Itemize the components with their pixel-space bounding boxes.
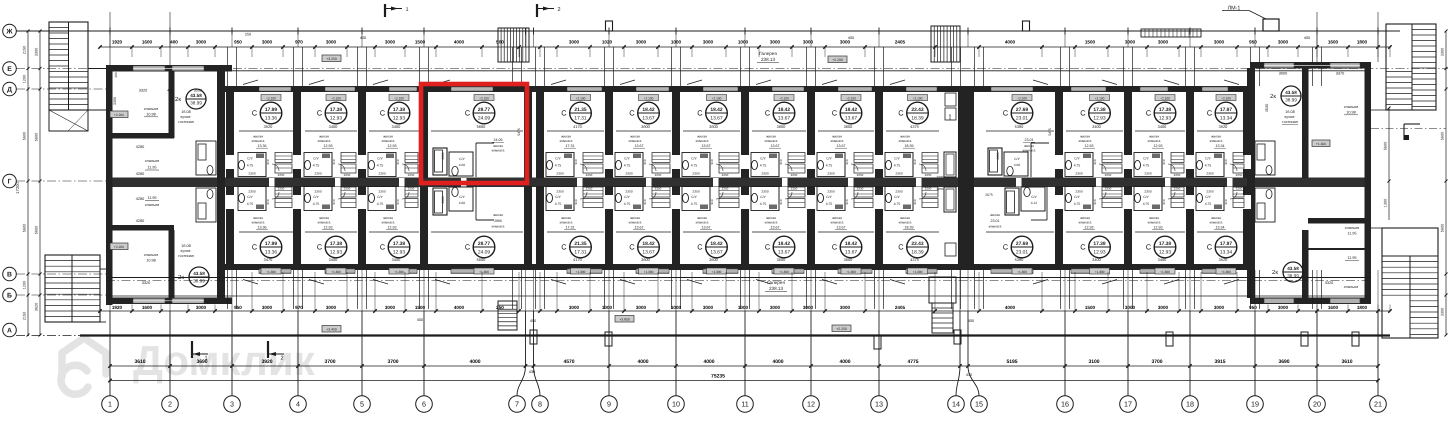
svg-text:400: 400: [417, 318, 423, 322]
svg-text:С/У: С/У: [1074, 157, 1080, 161]
svg-text:комната: комната: [989, 225, 1002, 229]
axis circle 3: [224, 396, 241, 413]
svg-text:5: 5: [360, 400, 364, 409]
svg-text:13.34: 13.34: [1216, 144, 1225, 148]
svg-text:комната: комната: [492, 225, 505, 229]
svg-text:3520: 3520: [264, 124, 273, 129]
svg-text:2250: 2250: [925, 187, 932, 191]
svg-text:спальня: спальня: [1344, 105, 1358, 109]
svg-text:4000: 4000: [839, 359, 850, 365]
svg-text:9: 9: [607, 400, 611, 409]
section mark 2 bottom: [267, 341, 269, 358]
svg-text:жилая: жилая: [990, 213, 1000, 217]
svg-text:10.98: 10.98: [146, 113, 156, 117]
svg-text:жилая: жилая: [561, 216, 571, 220]
svg-text:910: 910: [574, 199, 578, 204]
svg-text:кухня-: кухня-: [181, 249, 193, 253]
svg-text:910: 910: [574, 159, 578, 164]
svg-text:2к: 2к: [1270, 93, 1276, 100]
svg-text:13.67: 13.67: [710, 250, 723, 256]
svg-text:2: 2: [280, 356, 283, 362]
svg-text:16.08: 16.08: [1285, 110, 1295, 114]
svg-text:17.31: 17.31: [566, 144, 575, 148]
unit bottom 18.42 at x811: [838, 269, 872, 274]
svg-text:17.31: 17.31: [574, 116, 587, 122]
svg-text:+2.100: +2.100: [913, 96, 923, 100]
svg-text:2250: 2250: [722, 187, 729, 191]
svg-text:17.97: 17.97: [1220, 241, 1233, 247]
svg-text:С/У: С/У: [1014, 157, 1020, 161]
svg-text:Ж: Ж: [5, 28, 13, 35]
svg-text:2000: 2000: [948, 113, 952, 120]
svg-text:С/У: С/У: [1205, 157, 1211, 161]
svg-text:12.93: 12.93: [324, 226, 333, 230]
axis circle 12: [803, 396, 820, 413]
svg-text:1800: 1800: [1357, 305, 1368, 310]
unit top 22.43 at x879: [906, 87, 937, 92]
unit top 17.99 at x232: [259, 87, 291, 92]
elevation label left bottom: [110, 243, 128, 250]
svg-text:+2.100: +2.100: [479, 96, 489, 100]
svg-text:13.67: 13.67: [710, 116, 723, 122]
svg-text:С/У: С/У: [691, 157, 697, 161]
svg-text:2: 2: [168, 400, 172, 409]
svg-text:22.43: 22.43: [911, 107, 924, 113]
svg-text:2250: 2250: [655, 173, 662, 177]
riser box at axis 9: [606, 21, 613, 31]
axis circle 7: [509, 396, 526, 413]
svg-text:2300: 2300: [556, 190, 564, 194]
svg-text:С: С: [252, 243, 258, 252]
svg-text:3600: 3600: [641, 124, 650, 129]
svg-text:27.69: 27.69: [1016, 241, 1029, 247]
svg-text:3300: 3300: [1441, 308, 1445, 316]
svg-text:3700: 3700: [1151, 359, 1162, 365]
svg-text:С: С: [765, 109, 771, 118]
svg-text:+2.200: +2.200: [114, 245, 124, 249]
svg-text:3000: 3000: [803, 305, 814, 310]
svg-text:+2.100: +2.100: [1095, 96, 1105, 100]
svg-text:Г: Г: [8, 178, 12, 185]
svg-text:комната: комната: [899, 221, 912, 225]
svg-text:18: 18: [1186, 400, 1194, 409]
right section top wall: [1250, 62, 1371, 69]
svg-text:4.75: 4.75: [247, 164, 254, 168]
svg-text:910: 910: [332, 159, 336, 164]
unit bottom 18.42 at x676: [703, 269, 738, 274]
svg-text:4.75: 4.75: [691, 202, 698, 206]
svg-text:10.98: 10.98: [146, 259, 156, 263]
svg-text:2250: 2250: [408, 173, 415, 177]
svg-text:19: 19: [1251, 400, 1259, 409]
svg-text:910: 910: [1162, 199, 1166, 204]
axis circle 2: [162, 396, 179, 413]
axis circle 14: [948, 396, 965, 413]
svg-text:3000: 3000: [1125, 40, 1136, 45]
left section outer wall: [106, 65, 113, 305]
svg-text:+2.200: +2.200: [832, 58, 843, 62]
svg-text:С: С: [252, 109, 258, 118]
axis circle 15: [971, 396, 988, 413]
svg-text:3000: 3000: [385, 40, 396, 45]
unit bottom 17.38 at x362: [389, 269, 417, 274]
svg-text:2300: 2300: [378, 172, 386, 176]
svg-text:комната: комната: [696, 221, 709, 225]
svg-text:6: 6: [422, 400, 426, 409]
axis circle 18: [1182, 396, 1199, 413]
left 2K interior horizontal walls: [112, 133, 174, 139]
svg-text:910: 910: [643, 199, 647, 204]
svg-text:910: 910: [779, 199, 783, 204]
svg-text:3000: 3000: [636, 40, 647, 45]
svg-text:С/У: С/У: [459, 157, 465, 161]
svg-text:С: С: [317, 109, 323, 118]
svg-text:гостиная: гостиная: [178, 120, 193, 124]
svg-text:жилая: жилая: [1211, 216, 1221, 220]
svg-text:21.35: 21.35: [574, 241, 587, 247]
svg-text:комната: комната: [831, 139, 844, 143]
units top wall: [225, 86, 1250, 92]
svg-text:13.67: 13.67: [702, 226, 711, 230]
svg-text:С: С: [317, 243, 323, 252]
svg-text:Домклик: Домклик: [133, 337, 316, 384]
svg-text:2300: 2300: [625, 190, 633, 194]
svg-text:950: 950: [1249, 305, 1257, 310]
svg-text:жилая: жилая: [319, 135, 329, 139]
svg-text:5600: 5600: [477, 124, 486, 129]
axis circle 4: [290, 396, 307, 413]
svg-text:1500: 1500: [1085, 305, 1096, 310]
svg-text:38.99: 38.99: [193, 279, 205, 284]
bottom dimension line units: [100, 310, 1390, 312]
svg-text:5600: 5600: [23, 132, 27, 140]
svg-text:2250: 2250: [1105, 187, 1112, 191]
svg-text:910: 910: [396, 159, 400, 164]
svg-text:1: 1: [405, 7, 408, 13]
svg-text:2300: 2300: [827, 190, 835, 194]
svg-text:910: 910: [845, 159, 849, 164]
units bottom wall: [225, 264, 1250, 270]
svg-text:4000: 4000: [703, 359, 714, 365]
svg-text:3690: 3690: [196, 359, 207, 365]
svg-text:4.75: 4.75: [624, 164, 631, 168]
watermark house icon: [61, 338, 106, 394]
svg-text:4: 4: [296, 400, 300, 409]
elevation label right top: [1312, 140, 1330, 147]
svg-text:4.75: 4.75: [377, 202, 384, 206]
axis circle 5: [354, 396, 371, 413]
unit 22.43 bath strip fixtures: [945, 93, 956, 106]
thick wall axes 14-15: [958, 88, 974, 266]
party walls between units: [226, 88, 234, 178]
svg-text:комната: комната: [831, 221, 844, 225]
svg-text:+1.300: +1.300: [266, 270, 276, 274]
svg-text:5600: 5600: [1384, 142, 1388, 150]
svg-text:2250: 2250: [278, 187, 285, 191]
svg-text:3600: 3600: [777, 257, 786, 262]
party wall door niches: [226, 155, 234, 169]
gallery bottom edge lines: [106, 277, 1371, 279]
svg-text:950: 950: [234, 305, 242, 310]
svg-text:8: 8: [538, 400, 542, 409]
svg-text:910: 910: [710, 199, 714, 204]
left 2K apartment label top: [186, 89, 206, 109]
svg-text:С: С: [1003, 109, 1009, 118]
svg-text:1920: 1920: [112, 40, 123, 45]
svg-text:С/У: С/У: [555, 195, 561, 199]
svg-text:18.39: 18.39: [905, 144, 914, 148]
elevation label +2.250 bottom right: [832, 325, 851, 332]
svg-text:4.75: 4.75: [1205, 202, 1212, 206]
svg-text:4.75: 4.75: [826, 202, 833, 206]
svg-text:С/У: С/У: [826, 157, 832, 161]
svg-text:4.75: 4.75: [894, 164, 901, 168]
svg-text:+1.300: +1.300: [394, 270, 404, 274]
svg-text:3100: 3100: [1088, 359, 1099, 365]
svg-text:С: С: [1080, 109, 1086, 118]
svg-text:комната: комната: [1210, 139, 1223, 143]
svg-text:3600: 3600: [709, 124, 718, 129]
unit bottom 17.38 at x298: [325, 269, 355, 274]
svg-text:3000: 3000: [703, 305, 714, 310]
axis circle 1: [102, 396, 119, 413]
svg-text:3000: 3000: [1278, 40, 1289, 45]
svg-text:13.67: 13.67: [771, 226, 780, 230]
axis circle 6: [416, 396, 433, 413]
svg-text:910: 910: [1093, 199, 1097, 204]
svg-text:2250: 2250: [925, 173, 932, 177]
svg-text:23.01: 23.01: [1016, 116, 1029, 122]
elevation label +3.250 top gallery: [322, 55, 341, 62]
right 2K interior horizontal walls: [1308, 218, 1365, 224]
svg-text:18.42: 18.42: [710, 241, 723, 247]
svg-text:А: А: [7, 327, 12, 334]
svg-text:12.93: 12.93: [1085, 144, 1094, 148]
right 2K interior vertical wall: [1302, 68, 1309, 178]
svg-text:С/У: С/У: [247, 195, 253, 199]
svg-text:910: 910: [779, 159, 783, 164]
svg-text:+2.100: +2.100: [712, 96, 722, 100]
svg-text:4530: 4530: [1265, 104, 1269, 112]
svg-text:17.38: 17.38: [1093, 241, 1106, 247]
svg-text:С/У: С/У: [1074, 195, 1080, 199]
svg-text:С: С: [832, 243, 838, 252]
svg-text:4.75: 4.75: [894, 202, 901, 206]
riser box at axis 16: [1023, 21, 1030, 31]
svg-text:4.75: 4.75: [691, 164, 698, 168]
svg-text:жилая: жилая: [1080, 135, 1090, 139]
svg-text:С: С: [465, 243, 471, 252]
svg-text:жилая: жилая: [319, 216, 329, 220]
svg-text:+2.100: +2.100: [331, 96, 341, 100]
section mark 2 top: [536, 4, 538, 17]
svg-text:500: 500: [496, 40, 504, 45]
svg-text:спальня: спальня: [145, 159, 159, 163]
svg-text:3320: 3320: [142, 281, 150, 285]
svg-text:С: С: [832, 109, 838, 118]
svg-text:С: С: [1146, 109, 1152, 118]
svg-text:3000: 3000: [1214, 305, 1225, 310]
svg-text:2250: 2250: [344, 173, 351, 177]
unit top 17.97 at x1190: [1202, 87, 1228, 92]
svg-text:238.13: 238.13: [761, 57, 775, 62]
svg-text:3300: 3300: [35, 48, 39, 56]
svg-text:3000: 3000: [1125, 305, 1136, 310]
svg-text:2405: 2405: [895, 305, 906, 310]
svg-text:комната: комната: [252, 221, 265, 225]
unit top 18.42 at x609: [636, 87, 669, 92]
top dimension line: [100, 46, 1390, 48]
svg-text:3000: 3000: [1214, 40, 1225, 45]
svg-text:4.75: 4.75: [1205, 164, 1212, 168]
elevation label left top: [110, 111, 128, 118]
svg-text:1020: 1020: [602, 40, 613, 45]
svg-text:5600: 5600: [35, 133, 39, 141]
svg-text:2300: 2300: [314, 190, 322, 194]
svg-text:13.67: 13.67: [635, 226, 644, 230]
svg-text:1200: 1200: [23, 281, 27, 289]
svg-text:24.09: 24.09: [478, 250, 491, 256]
svg-text:13.36: 13.36: [265, 116, 278, 122]
right entry fixtures: [1255, 141, 1275, 175]
svg-text:Галерея: Галерея: [767, 280, 785, 285]
svg-text:+1.300: +1.300: [1160, 270, 1170, 274]
svg-text:3400: 3400: [329, 257, 338, 262]
svg-text:спальня: спальня: [1344, 285, 1358, 289]
svg-text:+1.300: +1.300: [576, 270, 586, 274]
svg-text:+1.300: +1.300: [712, 270, 722, 274]
svg-text:75235: 75235: [711, 374, 725, 380]
svg-text:2250: 2250: [857, 173, 864, 177]
svg-text:спальня: спальня: [1345, 226, 1359, 230]
svg-text:С/У: С/У: [247, 157, 253, 161]
svg-text:7: 7: [515, 400, 519, 409]
svg-text:С: С: [765, 243, 771, 252]
svg-text:250: 250: [496, 305, 504, 310]
svg-text:3000: 3000: [1279, 72, 1287, 76]
svg-text:910: 910: [845, 199, 849, 204]
svg-text:4280: 4280: [136, 197, 144, 201]
svg-text:17.38: 17.38: [330, 107, 343, 113]
svg-text:жилая: жилая: [697, 135, 707, 139]
svg-text:24.09: 24.09: [478, 116, 491, 122]
svg-text:3620: 3620: [35, 303, 39, 311]
svg-text:4000: 4000: [772, 359, 783, 365]
svg-text:23.01: 23.01: [1025, 138, 1034, 142]
svg-text:4.66: 4.66: [459, 163, 466, 167]
svg-text:400: 400: [170, 40, 178, 45]
svg-text:+1.300: +1.300: [779, 270, 789, 274]
svg-text:+1.300: +1.300: [1221, 270, 1231, 274]
svg-text:С/У: С/У: [1143, 157, 1149, 161]
svg-text:3000: 3000: [840, 40, 851, 45]
svg-text:С: С: [561, 109, 567, 118]
exterior stair bottom axis 7-8: [498, 301, 517, 330]
svg-text:3600: 3600: [777, 124, 786, 129]
svg-text:4.75: 4.75: [555, 164, 562, 168]
svg-text:С/У: С/У: [377, 195, 383, 199]
svg-text:910: 910: [1162, 159, 1166, 164]
svg-text:2300: 2300: [625, 172, 633, 176]
svg-text:18.42: 18.42: [710, 107, 723, 113]
svg-text:2300: 2300: [1206, 172, 1214, 176]
svg-text:28.77: 28.77: [478, 241, 491, 247]
svg-text:3000: 3000: [326, 40, 337, 45]
svg-text:4375: 4375: [910, 257, 919, 262]
svg-text:+3.250: +3.250: [326, 57, 337, 61]
svg-text:С: С: [1003, 243, 1009, 252]
svg-text:С/У: С/У: [1143, 195, 1149, 199]
axis circle Д: [3, 82, 17, 96]
svg-text:2300: 2300: [692, 172, 700, 176]
svg-text:23.01: 23.01: [1016, 250, 1029, 256]
gallery top edge lines: [106, 70, 1371, 72]
svg-text:13.67: 13.67: [845, 250, 858, 256]
svg-text:комната: комната: [696, 139, 709, 143]
axis circle Г: [3, 174, 17, 188]
svg-text:3400: 3400: [1158, 124, 1167, 129]
svg-text:+1.300: +1.300: [846, 270, 856, 274]
svg-text:3920: 3920: [261, 359, 272, 365]
svg-text:жилая: жилая: [253, 216, 263, 220]
svg-text:3000: 3000: [703, 40, 714, 45]
svg-text:4375: 4375: [910, 124, 919, 129]
svg-text:43.58: 43.58: [1287, 266, 1299, 271]
svg-text:11.95: 11.95: [147, 166, 156, 170]
svg-text:жилая: жилая: [832, 135, 842, 139]
svg-text:18.42: 18.42: [845, 107, 858, 113]
svg-text:комната: комната: [382, 139, 395, 143]
svg-text:3300: 3300: [1441, 48, 1445, 56]
svg-text:12.93: 12.93: [1093, 116, 1106, 122]
svg-text:12.93: 12.93: [1154, 144, 1163, 148]
svg-text:2300: 2300: [895, 190, 903, 194]
svg-text:950: 950: [1249, 40, 1257, 45]
svg-text:5600: 5600: [1441, 224, 1445, 232]
svg-text:3000: 3000: [770, 40, 781, 45]
svg-text:910: 910: [1224, 199, 1228, 204]
left 2K interior vertical wall: [169, 71, 175, 138]
svg-text:4.75: 4.75: [555, 202, 562, 206]
left section top windows: [133, 66, 165, 71]
axis circle В: [3, 267, 17, 281]
svg-text:3370: 3370: [1336, 72, 1344, 76]
svg-text:4.75: 4.75: [624, 202, 631, 206]
svg-text:комната: комната: [765, 221, 778, 225]
svg-text:11.95: 11.95: [1347, 232, 1356, 236]
svg-text:комната: комната: [1079, 221, 1092, 225]
svg-text:21.35: 21.35: [574, 107, 587, 113]
svg-text:3690: 3690: [1278, 359, 1289, 365]
svg-text:комната: комната: [492, 149, 505, 153]
svg-text:+2.100: +2.100: [1221, 96, 1231, 100]
svg-text:1600: 1600: [1328, 40, 1339, 45]
svg-text:12.93: 12.93: [1159, 116, 1172, 122]
svg-text:22.43: 22.43: [911, 241, 924, 247]
svg-text:4.75: 4.75: [1143, 164, 1150, 168]
svg-text:+1.300: +1.300: [479, 270, 489, 274]
svg-text:3000: 3000: [262, 40, 273, 45]
svg-text:910: 910: [396, 199, 400, 204]
svg-text:С/У: С/У: [624, 157, 630, 161]
svg-text:4000: 4000: [454, 305, 465, 310]
svg-text:гостиная: гостиная: [1282, 120, 1297, 124]
unit bottom 28.77 at x424: [451, 269, 493, 274]
svg-text:13.67: 13.67: [642, 250, 655, 256]
svg-text:жилая: жилая: [630, 135, 640, 139]
svg-text:С: С: [898, 243, 904, 252]
svg-text:С: С: [898, 109, 904, 118]
